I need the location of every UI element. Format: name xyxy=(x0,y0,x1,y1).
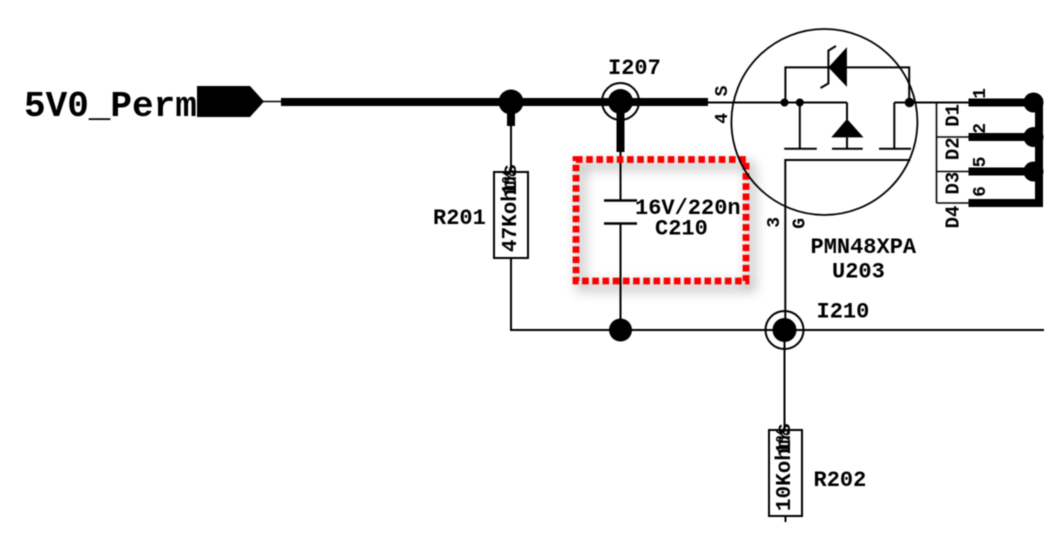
wire pin1 thick xyxy=(969,99,1044,107)
wire S pin (thin) into circle xyxy=(708,102,847,104)
net tag 5V0_Perm xyxy=(197,86,264,117)
zener cathode bar with ticks xyxy=(821,46,837,88)
svg-text:PMN48XPA: PMN48XPA xyxy=(811,235,917,260)
svg-text:D3: D3 xyxy=(943,172,965,195)
wire R201 bottom to bottom rail xyxy=(511,258,1044,330)
wire stub below junction R201 xyxy=(507,102,515,126)
wire tag to bus xyxy=(262,101,284,103)
wire I207 to C210 top xyxy=(620,152,622,200)
junction dot zener-right on drain wire xyxy=(905,98,915,108)
mosfet gate electrode bar xyxy=(785,160,910,330)
mosfet bulk contact bar xyxy=(832,148,863,150)
junction dot zener-left on S wire xyxy=(781,99,789,107)
capacitor C210 top plate xyxy=(604,199,637,201)
svg-text:3: 3 xyxy=(765,217,785,228)
capacitor C210 bottom plate xyxy=(604,222,637,224)
connector pad pin2 xyxy=(1024,127,1044,147)
testpoint ring I207 xyxy=(602,83,639,120)
testpoint ring I210 xyxy=(766,311,804,349)
svg-text:R202: R202 xyxy=(814,468,867,493)
wire source contact drop xyxy=(799,103,801,149)
ladder rung row3 xyxy=(937,171,969,173)
ladder rung row2 xyxy=(937,136,969,138)
wire junction to R201 top xyxy=(510,126,512,172)
svg-text:U203: U203 xyxy=(832,260,885,285)
svg-text:2: 2 xyxy=(971,123,991,134)
body diode triangle xyxy=(831,119,863,137)
wire circle to ladder xyxy=(910,102,969,104)
wire stub below I207 xyxy=(617,102,625,152)
svg-text:5: 5 xyxy=(971,157,991,168)
svg-text:S: S xyxy=(713,85,733,96)
junction dot at R201 tap xyxy=(499,90,524,115)
transistor U203 body circle xyxy=(731,29,917,215)
svg-text:6: 6 xyxy=(971,186,991,197)
body diode stub to bulk contact xyxy=(846,137,848,148)
wire C210 bottom to rail xyxy=(620,224,622,331)
junction dot I210 xyxy=(773,318,797,342)
junction dot source contact on S wire xyxy=(796,99,804,107)
svg-text:5V0_Perm: 5V0_Perm xyxy=(24,86,197,127)
svg-text:G: G xyxy=(791,218,811,229)
wire pin5 thick xyxy=(969,168,1044,176)
svg-text:1%: 1% xyxy=(500,170,523,196)
svg-text:D4: D4 xyxy=(943,206,965,229)
svg-text:4: 4 xyxy=(713,113,733,124)
ladder rung row4 xyxy=(937,202,969,204)
zener rail top xyxy=(785,67,909,102)
svg-text:D2: D2 xyxy=(943,137,965,160)
svg-text:R201: R201 xyxy=(433,206,486,231)
wire I210 to R202 xyxy=(784,330,786,430)
ladder rail vertical xyxy=(936,103,938,204)
svg-text:D1: D1 xyxy=(943,104,965,127)
connector pad pin5 xyxy=(1024,162,1044,182)
wire body diode drop xyxy=(846,103,848,120)
svg-text:I207: I207 xyxy=(608,56,661,81)
junction dot C210 on rail xyxy=(609,319,632,342)
wire drain side horizontal xyxy=(894,102,936,104)
resistor R202 body xyxy=(769,430,802,516)
mosfet source contact bar xyxy=(784,148,817,150)
junction dot I207 xyxy=(608,89,633,114)
resistor R201 body xyxy=(494,172,528,258)
wire R202 bottom stub xyxy=(785,516,787,522)
mosfet drain contact bar xyxy=(879,148,911,150)
svg-text:1: 1 xyxy=(971,88,991,99)
svg-text:1%: 1% xyxy=(774,429,797,455)
zener anode triangle xyxy=(828,47,847,87)
connector bus vertical thick xyxy=(1035,99,1043,208)
svg-text:I210: I210 xyxy=(817,300,870,325)
wire 5V0_Perm thick bus xyxy=(281,98,708,106)
wire pin2 thick xyxy=(969,133,1044,141)
connector pad pin1 xyxy=(1024,93,1044,113)
wire pin6 thick xyxy=(969,199,1044,207)
highlight box (red dotted) xyxy=(576,160,746,282)
svg-text:C210: C210 xyxy=(655,217,708,242)
wire drain contact drop xyxy=(893,103,895,149)
